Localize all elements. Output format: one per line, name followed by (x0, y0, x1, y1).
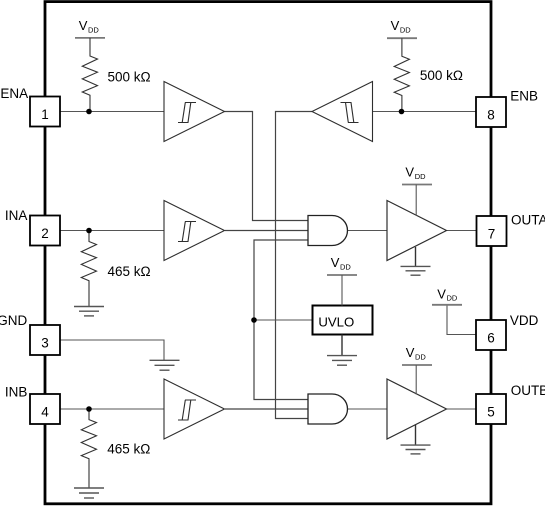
node junction dot INA (86, 228, 92, 234)
schmitt buffer U4 (INB) (164, 379, 225, 439)
node junction dot ENB (399, 109, 405, 115)
svg-text:DD: DD (447, 294, 458, 303)
svg-text:INA: INA (5, 208, 28, 223)
wire pin1 to schmitt ENA input (60, 111, 164, 113)
svg-text:500 kΩ: 500 kΩ (420, 68, 463, 83)
svg-text:UVLO: UVLO (318, 315, 354, 330)
wire AND A output to driver A (348, 230, 388, 232)
pin 1 (ENA) (30, 97, 60, 127)
VDD supply symbol top-right (387, 18, 417, 38)
UVLO block U5 (313, 306, 373, 335)
schmitt buffer U2 (ENB, left-pointing) (312, 82, 373, 142)
svg-text:8: 8 (487, 107, 495, 122)
svg-text:V: V (406, 345, 415, 360)
wire driver B output to pin5 (447, 408, 477, 410)
svg-text:5: 5 (487, 404, 495, 419)
ground symbol driver B (401, 425, 431, 454)
svg-text:VDD: VDD (510, 313, 539, 328)
svg-text:7: 7 (488, 226, 496, 241)
ground symbol driver A (401, 247, 431, 275)
pin 4 (INB) (30, 394, 60, 424)
svg-text:465 kΩ: 465 kΩ (107, 442, 150, 457)
svg-text:V: V (405, 165, 414, 180)
wire UVLO output to bus junction (254, 319, 313, 321)
svg-text:V: V (391, 18, 400, 33)
svg-text:4: 4 (41, 404, 49, 419)
wire driver A output to pin7 (447, 230, 477, 232)
svg-text:465 kΩ: 465 kΩ (108, 264, 151, 279)
pin 8 (ENB) (476, 97, 506, 127)
ground symbol (INA resistor) (74, 307, 104, 316)
schmitt buffer U1 (ENA) (164, 82, 225, 142)
output driver A (387, 201, 447, 261)
wire VDD symbol to pin6 (447, 305, 476, 335)
svg-text:2: 2 (41, 226, 49, 241)
wire schmitt INB output to AND B (225, 408, 308, 410)
ground symbol (GND pin 3) (150, 360, 180, 370)
VDD supply symbol driver B (402, 345, 432, 394)
VDD supply symbol driver A (402, 165, 432, 216)
ground symbol (INB resistor) (74, 488, 104, 498)
pin 7 (OUTA) (477, 216, 507, 246)
AND gate A (308, 216, 347, 246)
wire pin2 to schmitt INA input (60, 230, 164, 232)
svg-text:V: V (79, 18, 88, 33)
pin 6 (VDD) (476, 320, 506, 350)
wire schmitt ENA output to bus (225, 112, 309, 221)
AND gate B (308, 394, 347, 424)
node junction dot UVLO bus (251, 317, 257, 323)
svg-text:OUTB: OUTB (511, 383, 545, 398)
VDD supply symbol UVLO (327, 255, 357, 306)
schmitt buffer U3 (INA) (164, 201, 225, 261)
svg-text:DD: DD (88, 25, 99, 34)
pin 3 (GND) (30, 325, 60, 355)
svg-text:1: 1 (41, 107, 49, 122)
pin 2 (INA) (30, 216, 60, 246)
VDD supply symbol top-left (75, 18, 105, 38)
output driver B (387, 379, 447, 439)
node junction dot ENA (86, 109, 92, 115)
ground symbol UVLO (327, 335, 357, 366)
wire pin3 to ground (60, 340, 164, 360)
wire AND B output to driver B (348, 408, 388, 410)
svg-text:3: 3 (41, 335, 49, 350)
svg-text:V: V (331, 255, 340, 270)
resistor R2 500k (ENB pull-up) (394, 38, 463, 111)
svg-text:500 kΩ: 500 kΩ (108, 70, 151, 85)
pin 5 (OUTB) (476, 394, 506, 424)
wire pin8 to schmitt ENB input (373, 111, 477, 113)
svg-text:DD: DD (415, 172, 426, 181)
wire pin4 to schmitt INB input (60, 408, 164, 410)
VDD supply symbol pin 6 (432, 286, 462, 305)
svg-text:ENA: ENA (0, 86, 28, 101)
svg-text:DD: DD (340, 262, 351, 271)
svg-text:DD: DD (400, 26, 411, 35)
wire schmitt INA output to AND A (225, 230, 308, 232)
svg-text:ENB: ENB (510, 88, 538, 103)
resistor R4 465k (INB pull-down) (81, 409, 150, 488)
svg-text:INB: INB (5, 384, 28, 399)
node junction dot INB (86, 406, 92, 412)
wire schmitt ENB output to bus (276, 112, 313, 419)
svg-text:6: 6 (487, 330, 495, 345)
svg-text:OUTA: OUTA (511, 213, 545, 228)
svg-text:GND: GND (0, 313, 27, 328)
resistor R1 500k (ENA pull-up) (82, 38, 150, 112)
wire UVLO bus vertical (254, 240, 308, 400)
svg-text:DD: DD (415, 352, 426, 361)
svg-text:V: V (437, 286, 446, 301)
resistor R3 465k (INA pull-down) (81, 231, 150, 307)
